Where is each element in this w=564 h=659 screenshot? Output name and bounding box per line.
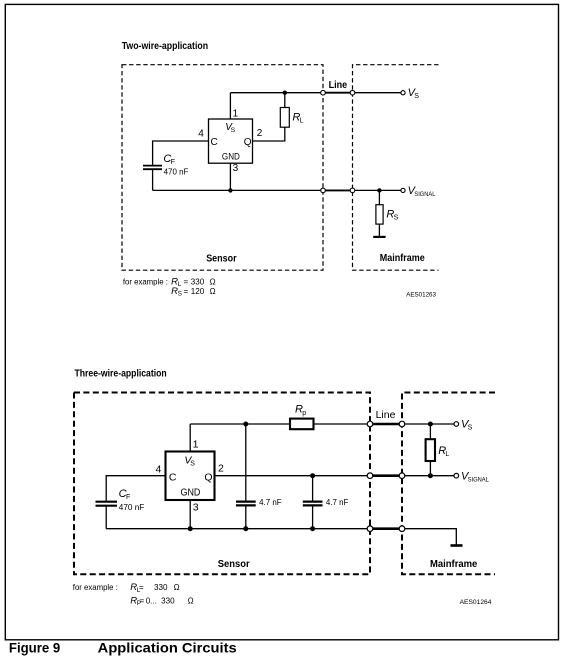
line tap circle mainframe gnd (three-wire) [399,526,405,532]
IC U1 (two-wire sensor IC) [209,119,253,163]
svg-text:330: 330 [154,583,168,592]
junction dot node C2 bottom [310,526,315,531]
line tap circle sensor gnd (three-wire) [367,526,373,532]
wire Q signal rail [215,475,371,477]
line tap circle sensor Vsignal [321,188,326,193]
mainframe dashed box (three-wire, open right) [402,393,495,575]
svg-text:4.7 nF: 4.7 nF [259,497,282,507]
svg-text:F: F [171,159,175,166]
line tap circle sensor Vs [321,90,326,95]
junction dot node RL bottom (three-wire) [428,473,433,478]
svg-text:Ω: Ω [210,287,216,296]
terminal circle Vs [401,91,405,95]
resistor R_L (three-wire) [426,439,435,461]
junction dot node C2 top [310,473,315,478]
wire bottom rail (Vsignal) [153,189,403,191]
svg-text:Mainframe: Mainframe [430,559,478,570]
capacitor C2 4.7nF top wire [312,476,314,501]
ground GND1 bar [373,236,385,238]
svg-text:Sensor: Sensor [218,559,250,570]
wire RL top (three-wire) [429,424,431,439]
svg-text:SIGNAL: SIGNAL [468,476,489,483]
svg-text:Figure 9: Figure 9 [9,641,60,656]
svg-text:GND: GND [181,487,201,498]
svg-text:=: = [139,583,144,592]
terminal circle Vs (three-wire) [454,422,459,427]
svg-text:Line: Line [329,80,348,91]
wire line cable segment Vs [323,92,353,94]
junction dot node RL/Vs [283,91,287,95]
wire pin1 vertical (three-wire) [189,424,191,452]
svg-text:L: L [445,451,449,458]
svg-text:L: L [300,118,304,125]
resistor R_p [290,419,314,430]
svg-text:AES01264: AES01264 [460,599,492,606]
wire RL top [284,93,286,108]
svg-text:for example :: for example : [123,277,168,286]
wire Vs rail left of Rp [190,423,290,425]
svg-text:S: S [231,127,236,134]
svg-text:S: S [190,461,195,468]
capacitor C_F plates [143,165,162,167]
junction dot node pin3 rail [188,526,193,531]
junction dot node RS/bottom rail [377,188,381,192]
line tap circle mainframe Vs (three-wire) [399,421,405,427]
mainframe dashed box (two-wire, open right) [353,65,439,271]
wire pin3 vertical (three-wire) [189,500,191,529]
wire RS vertical top [378,190,380,204]
ground GND2 bar [451,544,463,547]
wire RL bottom to Q [253,127,285,141]
svg-text:Two-wire-application: Two-wire-application [122,41,208,52]
wire ground rail bold segment [370,527,402,530]
svg-text:S: S [178,291,183,298]
capacitor C_F plates (three-wire) [96,501,118,503]
wire line cable segment Vsignal [323,189,353,191]
svg-text:SIGNAL: SIGNAL [414,191,435,198]
junction dot node pin3/bottom rail [228,188,232,192]
resistor R_S [376,205,383,224]
svg-text:=: = [184,277,189,286]
svg-text:C: C [169,471,177,483]
figure caption [9,641,237,656]
capacitor C2 4.7nF plates [303,501,323,503]
svg-text:470 nF: 470 nF [164,166,189,176]
svg-text:4: 4 [198,128,204,139]
svg-text:Application Circuits: Application Circuits [98,641,237,656]
wire Rp to line [314,423,371,425]
svg-text:L: L [178,281,182,288]
svg-text:0...: 0... [146,596,157,605]
svg-text:for example :: for example : [73,583,118,592]
wire RS to ground [378,224,380,237]
svg-text:330: 330 [161,596,175,605]
capacitor C1 4.7nF plates [236,501,256,503]
wire Vs to terminal [402,423,456,425]
svg-text:120: 120 [191,287,205,296]
svg-text:470 nF: 470 nF [119,502,145,512]
sensor dashed box (three-wire) [74,393,370,575]
svg-text:Ω: Ω [188,596,194,605]
svg-text:=: = [140,596,145,605]
wire Vs top rail [230,92,403,94]
wire line Vs bold segment [370,423,402,426]
wire ground rail [106,528,370,530]
line tap circle sensor signal (three-wire) [367,473,373,479]
svg-text:Ω: Ω [210,277,216,286]
terminal circle Vsignal [401,188,405,192]
junction dot node RL top (three-wire) [428,422,433,427]
wire CF bottom (three-wire) [105,507,107,529]
resistor R_L [280,108,289,128]
capacitor C1 4.7nF top wire [245,424,247,501]
IC U2 (three-wire sensor IC) [166,452,215,501]
capacitor C1 bottom wire [245,506,247,529]
svg-text:GND: GND [222,152,240,162]
svg-text:2: 2 [257,128,263,139]
svg-text:3: 3 [233,163,239,174]
wire RL bottom (three-wire) [429,461,431,476]
svg-text:Line: Line [376,409,396,421]
wire pin1 vertical [229,93,231,119]
svg-text:=: = [184,287,189,296]
svg-text:Q: Q [244,137,252,148]
svg-text:Q: Q [204,471,212,483]
wire line signal bold segment [370,474,402,477]
line tap circle mainframe Vsignal [350,188,355,193]
svg-text:3: 3 [193,502,199,514]
wire pin3 vertical [229,163,231,190]
junction dot node C1 bottom [243,526,248,531]
svg-text:F: F [126,494,130,501]
junction dot node C1 top [243,422,248,427]
svg-text:2: 2 [218,463,224,475]
svg-text:330: 330 [191,277,205,286]
wire CF bottom [152,170,154,191]
svg-text:Ω: Ω [174,583,180,592]
svg-text:S: S [468,425,473,432]
svg-text:4.7 nF: 4.7 nF [326,497,349,507]
svg-text:C: C [211,137,218,148]
svg-text:Three-wire-application: Three-wire-application [75,369,167,380]
svg-text:1: 1 [233,109,239,120]
svg-text:S: S [414,93,419,100]
svg-text:Sensor: Sensor [206,254,236,265]
capacitor C2 bottom wire [312,506,314,529]
wire pin4 to CF [153,141,209,165]
line tap circle sensor Vs (three-wire) [367,421,373,427]
line tap circle mainframe signal (three-wire) [399,473,405,479]
svg-text:4: 4 [156,464,162,476]
svg-text:AES01263: AES01263 [406,292,436,299]
svg-text:Mainframe: Mainframe [380,253,425,264]
terminal circle Vsignal (three-wire) [454,473,459,478]
wire ground rail to gnd symbol [402,529,456,545]
wire signal to terminal [402,475,456,477]
wire pin4 to CF (three-wire) [106,476,165,501]
svg-text:1: 1 [193,439,199,451]
svg-text:S: S [394,215,399,222]
sensor dashed box (two-wire) [122,65,323,271]
svg-text:p: p [302,410,306,417]
line tap circle mainframe Vs [350,90,355,95]
